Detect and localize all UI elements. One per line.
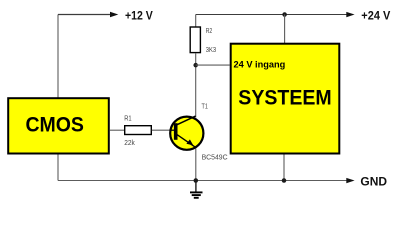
wire +12V horizontal rail	[58, 14, 111, 16]
wire R2 top stub	[195, 15, 197, 27]
arrow GND	[346, 178, 354, 183]
resistor R1	[124, 114, 151, 135]
supply arrow +24V	[346, 12, 354, 17]
wire CMOS bottom to ground rail	[57, 155, 59, 181]
svg-text:BC549C: BC549C	[202, 153, 228, 162]
block CMOS	[8, 98, 109, 153]
junction node emitter/ground rail	[194, 178, 199, 183]
svg-text:24 V ingang: 24 V ingang	[234, 60, 286, 70]
svg-text:R2: R2	[206, 26, 213, 35]
resistor R2	[190, 26, 212, 53]
svg-text:CMOS: CMOS	[25, 114, 84, 137]
wire R2 bottom to collector	[195, 53, 197, 117]
wire SYSTEEM bottom to ground rail	[283, 155, 285, 181]
wire +12V vertical drop to CMOS	[57, 15, 59, 99]
wire node to SYSTEEM input	[196, 64, 230, 66]
wire emitter to ground rail	[195, 149, 197, 181]
svg-text:R1: R1	[124, 114, 131, 123]
junction node SYSTEEM/ground rail	[282, 178, 287, 183]
wire +24V drop to SYSTEEM	[284, 15, 286, 44]
svg-text:22k: 22k	[124, 138, 135, 147]
block SYSTEEM	[231, 44, 340, 154]
transistor T1	[170, 116, 204, 150]
wire CMOS output to R1	[110, 129, 125, 131]
svg-text:T1: T1	[202, 102, 208, 111]
ground	[190, 181, 203, 198]
supply arrow +12V	[110, 12, 118, 17]
svg-text:+12 V: +12 V	[125, 9, 153, 23]
svg-text:GND: GND	[360, 174, 387, 188]
wire +24V top rail	[196, 14, 347, 16]
wire R1 to transistor base	[152, 129, 171, 131]
junction node +24V	[282, 12, 287, 17]
svg-text:SYSTEEM: SYSTEEM	[238, 86, 331, 110]
svg-text:+24 V: +24 V	[361, 9, 391, 23]
junction node collector/ingang	[193, 63, 198, 68]
svg-text:3K3: 3K3	[206, 45, 216, 54]
wire ground rail	[58, 180, 347, 182]
